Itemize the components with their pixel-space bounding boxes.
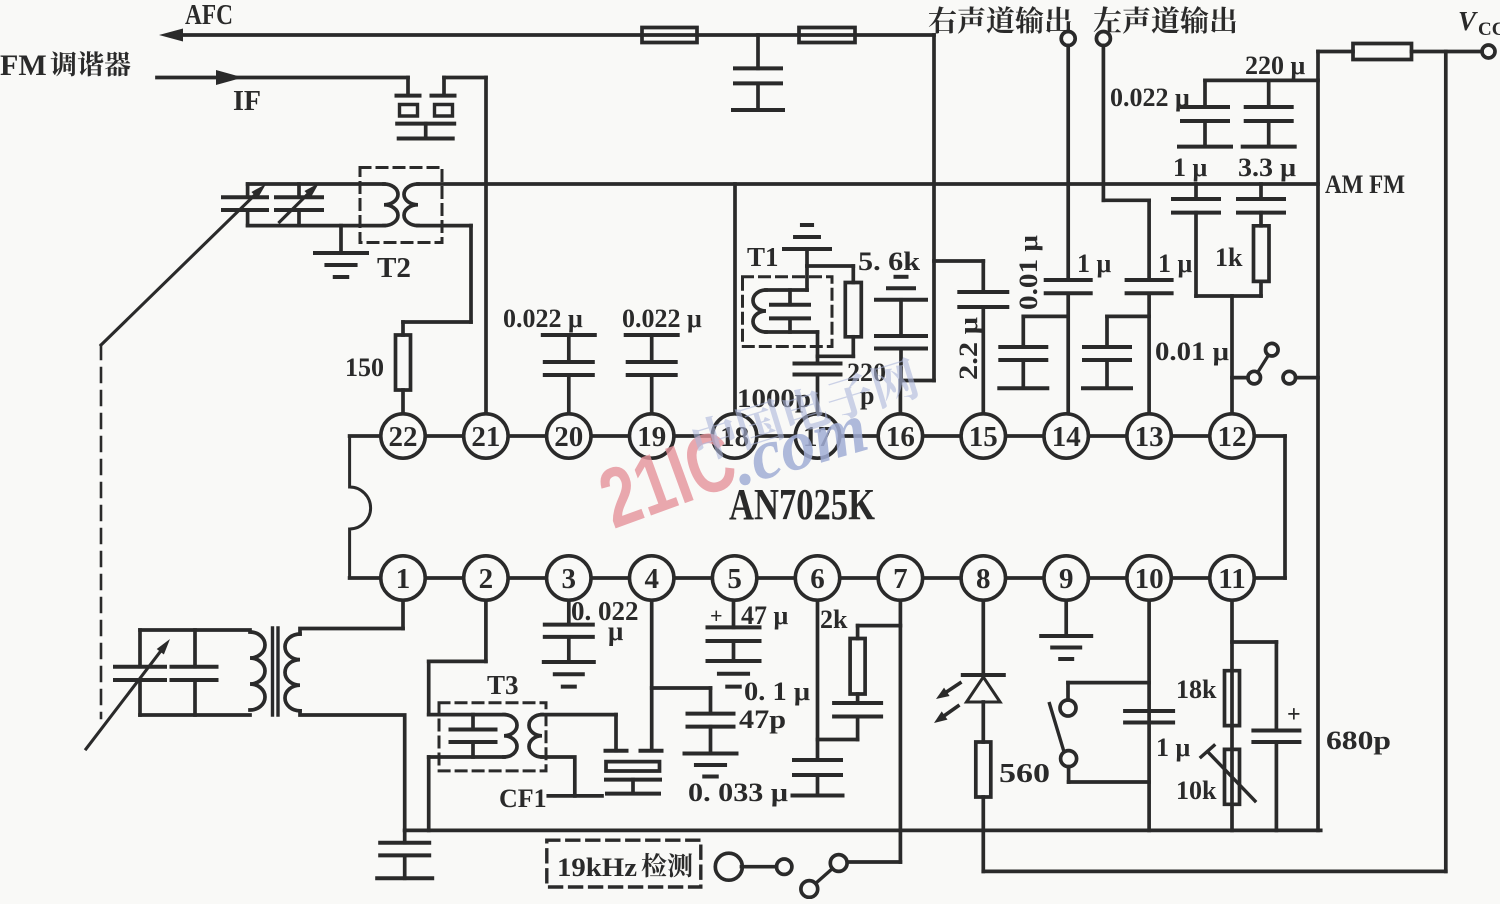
svg-text:3.3 μ: 3.3 μ xyxy=(1238,153,1296,182)
svg-text:13: 13 xyxy=(1135,421,1164,453)
svg-text:0.01 μ: 0.01 μ xyxy=(1155,337,1229,366)
svg-text:0.01 μ: 0.01 μ xyxy=(1014,235,1043,310)
svg-text:AFC: AFC xyxy=(185,0,233,31)
svg-text:T3: T3 xyxy=(487,670,519,700)
svg-text:μ: μ xyxy=(608,616,623,646)
svg-text:7: 7 xyxy=(893,563,908,595)
svg-text:1 μ: 1 μ xyxy=(1077,249,1112,278)
svg-text:0.022 μ: 0.022 μ xyxy=(503,304,583,333)
svg-text:11: 11 xyxy=(1218,563,1245,595)
svg-text:10: 10 xyxy=(1135,563,1164,595)
svg-text:10k: 10k xyxy=(1176,776,1217,805)
svg-text:0. 022: 0. 022 xyxy=(571,596,639,626)
svg-text:1 μ: 1 μ xyxy=(1173,153,1208,182)
svg-text:20: 20 xyxy=(554,421,583,453)
svg-text:21: 21 xyxy=(471,421,500,453)
svg-text:22: 22 xyxy=(389,421,418,453)
svg-text:150: 150 xyxy=(345,353,384,382)
svg-text:p: p xyxy=(860,381,874,410)
svg-text:T1: T1 xyxy=(747,242,779,272)
svg-text:5. 6k: 5. 6k xyxy=(858,247,921,276)
svg-text:14: 14 xyxy=(1052,421,1081,453)
svg-text:CC: CC xyxy=(1478,19,1500,40)
svg-text:CF1: CF1 xyxy=(499,784,547,813)
svg-text:47p: 47p xyxy=(739,705,786,734)
svg-text:AM FM: AM FM xyxy=(1325,170,1405,199)
svg-text:8: 8 xyxy=(976,563,991,595)
svg-text:4: 4 xyxy=(644,563,659,595)
svg-text:2: 2 xyxy=(479,563,494,595)
svg-text:V: V xyxy=(1458,6,1478,36)
svg-text:6: 6 xyxy=(810,563,825,595)
svg-text:0. 033 μ: 0. 033 μ xyxy=(688,778,788,807)
svg-text:1: 1 xyxy=(396,563,411,595)
svg-text:0.022 μ: 0.022 μ xyxy=(1110,83,1190,112)
svg-text:220 μ: 220 μ xyxy=(1245,51,1306,80)
svg-text:19kHz: 19kHz xyxy=(557,853,637,882)
svg-text:47 μ: 47 μ xyxy=(741,601,789,630)
svg-text:1k: 1k xyxy=(1215,243,1243,272)
svg-text:3: 3 xyxy=(562,563,577,595)
svg-text:16: 16 xyxy=(886,421,915,453)
svg-text:15: 15 xyxy=(969,421,998,453)
svg-text:IF: IF xyxy=(233,86,261,117)
svg-text:+: + xyxy=(1287,702,1301,728)
svg-text:18k: 18k xyxy=(1176,675,1217,704)
svg-text:2k: 2k xyxy=(820,605,848,634)
svg-text:2.2 μ: 2.2 μ xyxy=(954,317,983,380)
svg-text:0.022 μ: 0.022 μ xyxy=(622,304,702,333)
svg-text:12: 12 xyxy=(1218,421,1247,453)
svg-text:5: 5 xyxy=(727,563,742,595)
svg-text:560: 560 xyxy=(999,758,1050,788)
svg-text:T2: T2 xyxy=(377,253,411,284)
svg-text:1 μ: 1 μ xyxy=(1158,249,1193,278)
svg-text:+: + xyxy=(710,603,723,628)
svg-text:9: 9 xyxy=(1059,563,1074,595)
svg-text:680p: 680p xyxy=(1326,726,1391,755)
svg-text:1 μ: 1 μ xyxy=(1156,733,1191,762)
svg-text:0. 1 μ: 0. 1 μ xyxy=(744,677,810,706)
svg-text:FM: FM xyxy=(0,49,47,82)
